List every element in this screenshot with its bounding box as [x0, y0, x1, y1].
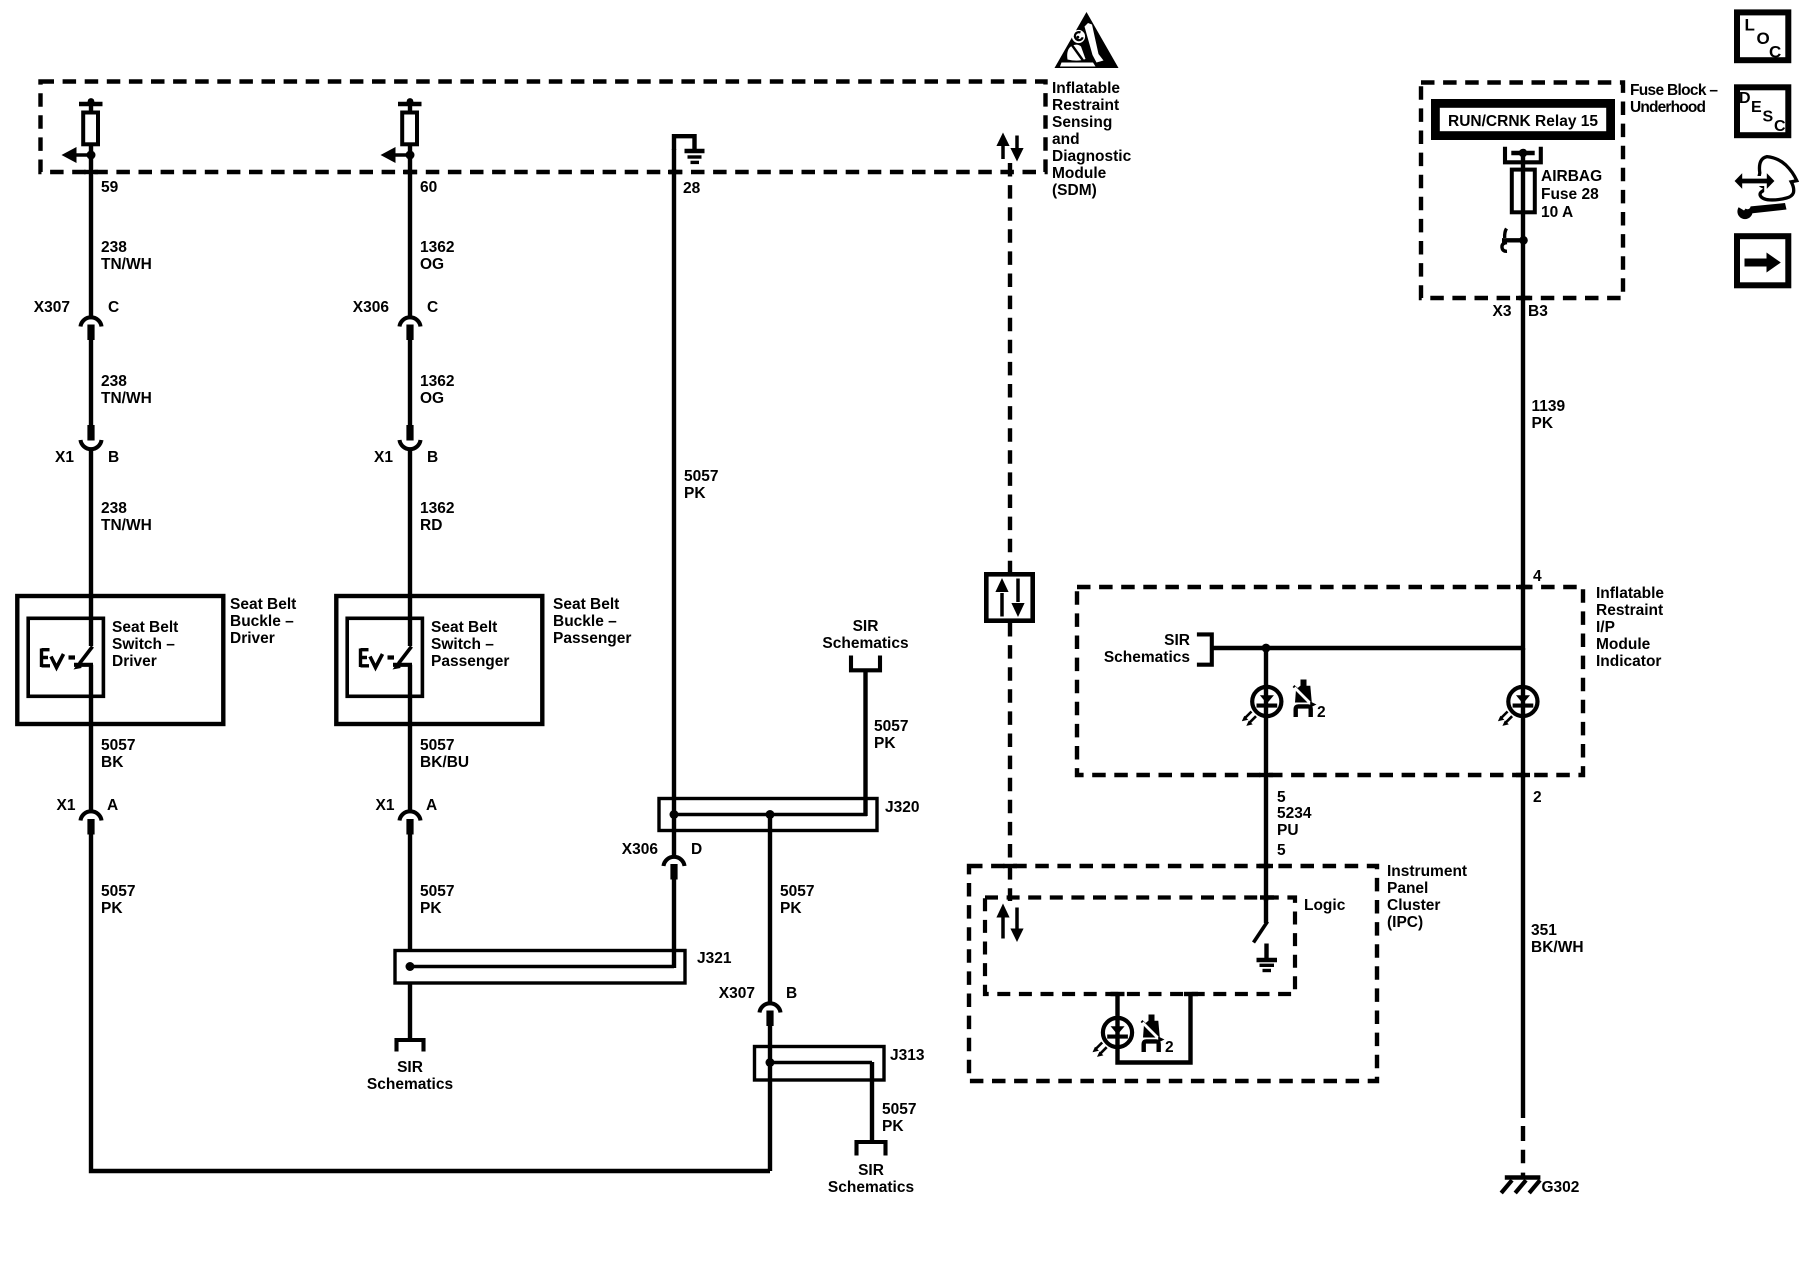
svg-text:B: B — [786, 985, 797, 1002]
svg-text:SIR: SIR — [1164, 632, 1190, 649]
IPC internal ground — [1257, 944, 1278, 971]
IPC label — [1387, 863, 1467, 931]
svg-text:238: 238 — [101, 373, 127, 390]
fuse bottom terminal — [1502, 229, 1528, 252]
indicator module label — [1596, 585, 1664, 670]
svg-text:Panel: Panel — [1387, 880, 1428, 897]
svg-text:5057: 5057 — [684, 468, 718, 485]
svg-text:1139: 1139 — [1532, 398, 1566, 415]
svg-text:C: C — [1769, 43, 1781, 62]
svg-text:28: 28 — [683, 180, 701, 197]
svg-text:5234: 5234 — [1277, 805, 1312, 822]
wire from indicator bracket to lamps — [1212, 644, 1523, 653]
wire 1139 PK — [1521, 298, 1525, 650]
legend LOC box — [1734, 9, 1791, 63]
legend DESC box — [1734, 84, 1791, 138]
fuse block underhood label — [1630, 82, 1718, 116]
splice J320 — [659, 799, 919, 831]
ground G302 — [1501, 1178, 1540, 1194]
svg-text:OG: OG — [420, 390, 444, 407]
svg-text:Module: Module — [1052, 165, 1107, 182]
wire J313 to SIR schematics (bottom) — [870, 1062, 874, 1143]
svg-text:Cluster: Cluster — [1387, 897, 1440, 914]
svg-text:PK: PK — [1532, 415, 1554, 432]
wire label 5057 BK/BU — [420, 737, 469, 771]
svg-text:A: A — [426, 797, 437, 814]
svg-text:X307: X307 — [719, 985, 755, 1002]
wire label 351 BK/WH — [1531, 922, 1584, 956]
data link connector box with arrows — [984, 572, 1035, 623]
logic dashed box — [985, 898, 1295, 995]
wire label 5057 PK (to J320) — [874, 718, 908, 752]
seat belt buckle driver outer box — [17, 596, 223, 724]
svg-text:Diagnostic: Diagnostic — [1052, 148, 1132, 165]
wire label 238 TN/WH (upper) — [101, 239, 152, 273]
svg-text:Inflatable: Inflatable — [1596, 585, 1664, 602]
SDM serial data arrows — [996, 133, 1023, 162]
svg-text:Seat Belt: Seat Belt — [112, 619, 178, 636]
svg-text:1362: 1362 — [420, 500, 454, 517]
connector X1 A passenger — [376, 797, 438, 835]
svg-text:I/P: I/P — [1596, 619, 1615, 636]
svg-text:(IPC): (IPC) — [1387, 914, 1423, 931]
svg-text:Buckle –: Buckle – — [230, 613, 294, 630]
serial data dashed line (SDM to DLC box) — [1008, 163, 1012, 572]
wire label 5057 PK (to X307 B) — [780, 883, 814, 917]
wire label 238 TN/WH (middle) — [101, 373, 152, 407]
svg-text:10 A: 10 A — [1541, 204, 1573, 221]
wire relay to fuse — [1521, 153, 1525, 172]
SIR schematics bracket (below J313) — [857, 1142, 886, 1156]
svg-text:5057: 5057 — [420, 737, 454, 754]
connector X1 B driver — [55, 425, 119, 466]
wire label 5057 PK (ground wire) — [684, 468, 718, 502]
wire 5057 PK driver down and bottom run to X307 B — [91, 835, 770, 1172]
svg-text:D: D — [1739, 90, 1751, 107]
svg-text:B3: B3 — [1528, 303, 1548, 320]
seat belt switch driver inner box — [28, 618, 103, 696]
svg-text:Restraint: Restraint — [1052, 97, 1119, 114]
SIR schematics label (above J320) — [822, 618, 908, 652]
svg-text:2: 2 — [1317, 704, 1326, 721]
SIR schematics label (indicator) — [1104, 632, 1190, 666]
svg-text:J313: J313 — [890, 1047, 925, 1064]
svg-text:Seat Belt: Seat Belt — [230, 596, 296, 613]
svg-text:5057: 5057 — [780, 883, 814, 900]
relay output terminal — [1505, 147, 1541, 163]
svg-text:X3: X3 — [1493, 303, 1512, 320]
svg-text:SIR: SIR — [858, 1162, 884, 1179]
svg-text:1362: 1362 — [420, 373, 454, 390]
wire label 1362 OG (middle) — [420, 373, 454, 407]
svg-text:BK/BU: BK/BU — [420, 754, 469, 771]
wire from SIR bracket to J320 — [863, 670, 867, 816]
svg-text:X306: X306 — [622, 841, 659, 858]
svg-text:X1: X1 — [55, 449, 74, 466]
resistor R-passenger inside SDM — [398, 98, 422, 144]
svg-text:238: 238 — [101, 500, 127, 517]
seat belt buckle passenger label — [553, 596, 631, 647]
wire 5057 BK driver — [89, 724, 93, 810]
IPC seat belt lamp wiring — [1118, 994, 1191, 1063]
serial data dashed line (DLC box to IPC) — [1008, 623, 1012, 901]
seat belt switch driver label — [112, 619, 178, 670]
splice J313 — [755, 1047, 925, 1081]
svg-text:59: 59 — [101, 179, 119, 196]
svg-text:and: and — [1052, 131, 1080, 148]
wire through right indicator lamp — [1521, 648, 1525, 775]
svg-text:5057: 5057 — [101, 737, 135, 754]
wire label 1362 RD — [420, 500, 454, 534]
svg-text:Inflatable: Inflatable — [1052, 80, 1120, 97]
svg-text:PK: PK — [780, 900, 802, 917]
svg-text:1362: 1362 — [420, 239, 454, 256]
wire 238 TN/WH to driver switch — [89, 451, 93, 646]
wire 5234 PU — [1264, 775, 1268, 901]
svg-text:Fuse Block –: Fuse Block – — [1630, 82, 1718, 99]
wire label 5057 BK — [101, 737, 135, 771]
svg-text:PK: PK — [882, 1118, 904, 1135]
svg-text:5057: 5057 — [420, 883, 454, 900]
svg-text:C: C — [427, 299, 438, 316]
wire 1362 OG (X306 C to X1 B) — [408, 340, 412, 425]
svg-text:X1: X1 — [376, 797, 395, 814]
svg-text:BK: BK — [101, 754, 124, 771]
svg-text:Buckle –: Buckle – — [553, 613, 617, 630]
svg-text:X307: X307 — [34, 299, 70, 316]
IPC seat belt LED lamp — [1093, 1018, 1133, 1057]
svg-text:PK: PK — [420, 900, 442, 917]
seat belt pictogram (IPC) — [1142, 1015, 1165, 1053]
pin X3 B3 labels — [1493, 303, 1549, 320]
svg-text:X1: X1 — [57, 797, 76, 814]
svg-text:PK: PK — [874, 735, 896, 752]
fuse AIRBAG Fuse 28 10 A — [1512, 170, 1535, 213]
seat belt switch passenger inner box — [347, 618, 422, 696]
svg-text:4: 4 — [1533, 568, 1542, 585]
wire through left indicator lamp — [1264, 648, 1268, 775]
connector X1 B passenger — [374, 425, 438, 466]
svg-text:Instrument: Instrument — [1387, 863, 1467, 880]
svg-text:Driver: Driver — [112, 653, 157, 670]
svg-text:5: 5 — [1277, 842, 1286, 859]
wire J321 to SIR schematics (passenger) — [408, 983, 412, 1039]
fuse block underhood dashed box — [1421, 83, 1623, 299]
svg-text:PK: PK — [684, 485, 706, 502]
svg-text:Logic: Logic — [1304, 897, 1346, 914]
svg-text:Schematics: Schematics — [1104, 649, 1190, 666]
svg-text:Restraint: Restraint — [1596, 602, 1663, 619]
current arrow at driver resistor — [62, 147, 96, 163]
inflatable restraint IP module indicator dashed box — [1077, 587, 1583, 775]
svg-text:5: 5 — [1277, 789, 1286, 806]
svg-text:PK: PK — [101, 900, 123, 917]
svg-text:Driver: Driver — [230, 630, 275, 647]
wire fuse to bottom terminal — [1521, 212, 1525, 298]
svg-text:2: 2 — [1533, 789, 1542, 806]
resistor R-driver inside SDM — [79, 98, 103, 144]
svg-text:A: A — [107, 797, 118, 814]
wire: SDM pin 60 down to X306 C — [408, 144, 412, 316]
svg-text:Schematics: Schematics — [828, 1179, 914, 1196]
LED indicator lamp (seat belt, left) — [1242, 687, 1282, 726]
svg-text:O: O — [1757, 29, 1770, 48]
seat belt buckle driver label — [230, 596, 296, 647]
fuse label — [1541, 168, 1602, 221]
svg-text:Switch –: Switch – — [112, 636, 175, 653]
wire: SDM pin 59 down to X307 C — [89, 144, 93, 316]
IPC serial data arrows — [996, 904, 1023, 943]
splice J321 — [395, 950, 732, 983]
wire 1362 RD to passenger switch — [408, 451, 412, 646]
svg-text:D: D — [691, 841, 702, 858]
svg-text:OG: OG — [420, 256, 444, 273]
svg-text:B: B — [427, 449, 438, 466]
seat belt switch passenger contact glyph — [361, 647, 413, 725]
svg-text:Indicator: Indicator — [1596, 653, 1661, 670]
svg-text:2: 2 — [1165, 1039, 1174, 1056]
dashed wire to G302 — [1521, 1126, 1525, 1178]
airbag warning triangle icon — [1055, 12, 1119, 68]
svg-text:TN/WH: TN/WH — [101, 256, 152, 273]
svg-text:C: C — [108, 299, 119, 316]
connector X307 B — [719, 985, 797, 1026]
legend forward arrow box — [1734, 233, 1791, 288]
SDM module dashed box — [41, 82, 1046, 173]
wire label 1139 PK — [1532, 398, 1566, 432]
wire X307 B into J313 — [768, 1026, 772, 1064]
svg-text:C: C — [1774, 118, 1786, 135]
SDM label — [1052, 80, 1132, 199]
wire J313 down to bottom run — [768, 1062, 772, 1171]
svg-text:J321: J321 — [697, 950, 732, 967]
wire 5057 BK/BU passenger — [408, 724, 412, 810]
svg-text:TN/WH: TN/WH — [101, 390, 152, 407]
connector X307 C — [34, 299, 119, 340]
wire 5057 PK from pin 28 to J320 — [672, 149, 676, 816]
svg-text:351: 351 — [1531, 922, 1557, 939]
current arrow at passenger resistor — [381, 147, 415, 163]
wire 238 TN/WH (X307 C to X1 B) — [89, 340, 93, 425]
IPC logic switch — [1254, 897, 1268, 943]
seat belt buckle passenger outer box — [336, 596, 542, 724]
svg-text:TN/WH: TN/WH — [101, 517, 152, 534]
seat belt switch passenger label — [431, 619, 509, 670]
svg-text:BK/WH: BK/WH — [1531, 939, 1584, 956]
seat belt switch driver contact glyph — [42, 647, 94, 725]
svg-text:SIR: SIR — [853, 618, 879, 635]
svg-text:Underhood: Underhood — [1630, 99, 1706, 116]
wire J320 to X306 D — [672, 814, 676, 855]
svg-text:5057: 5057 — [101, 883, 135, 900]
svg-text:L: L — [1745, 16, 1755, 35]
svg-text:RUN/CRNK Relay 15: RUN/CRNK Relay 15 — [1448, 113, 1598, 130]
svg-text:SIR: SIR — [397, 1059, 423, 1076]
wire 351 BK/WH — [1521, 775, 1525, 1118]
connector X1 A driver — [57, 797, 119, 835]
svg-text:(SDM): (SDM) — [1052, 182, 1097, 199]
SIR schematics bracket (below J321) — [397, 1040, 424, 1052]
SIR schematics label (below J313) — [828, 1162, 914, 1196]
svg-text:5057: 5057 — [874, 718, 908, 735]
SIR schematics label (below J321) — [367, 1059, 453, 1093]
connector X306 D — [622, 841, 702, 880]
svg-text:G302: G302 — [1542, 1179, 1580, 1196]
wire label 5057 PK passenger — [420, 883, 454, 917]
svg-text:Switch –: Switch – — [431, 636, 494, 653]
svg-text:238: 238 — [101, 239, 127, 256]
wire X306 D to J321 — [672, 880, 676, 969]
wire label 5234 PU and IPC pin 5 — [1277, 805, 1312, 859]
wire J320 to X307 B — [768, 814, 772, 1002]
svg-text:E: E — [1751, 99, 1762, 116]
SDM internal ground at pin 28 — [674, 136, 705, 162]
svg-text:5057: 5057 — [882, 1101, 916, 1118]
wire label 238 TN/WH (lower) — [101, 500, 152, 534]
svg-text:B: B — [108, 449, 119, 466]
svg-text:Module: Module — [1596, 636, 1651, 653]
svg-text:Passenger: Passenger — [431, 653, 509, 670]
svg-text:X1: X1 — [374, 449, 393, 466]
svg-text:X306: X306 — [353, 299, 390, 316]
svg-text:Passenger: Passenger — [553, 630, 631, 647]
svg-text:Seat Belt: Seat Belt — [553, 596, 619, 613]
svg-text:Sensing: Sensing — [1052, 114, 1112, 131]
seat belt pictogram (indicator) — [1294, 680, 1317, 718]
RUN/CRNK Relay 15 box — [1431, 99, 1615, 140]
svg-text:RD: RD — [420, 517, 442, 534]
SIR schematics bracket (indicator) — [1197, 634, 1212, 664]
wire label 5057 PK (J313 branch) — [882, 1101, 916, 1135]
svg-text:S: S — [1763, 109, 1774, 126]
svg-text:J320: J320 — [885, 799, 919, 816]
wire label 5057 PK driver — [101, 883, 135, 917]
wire label 1362 OG (upper) — [420, 239, 454, 273]
legend diagnostic wrench icon — [1733, 157, 1797, 219]
SIR schematics bracket (above J320) — [851, 656, 880, 671]
instrument panel cluster dashed box — [969, 866, 1377, 1081]
svg-text:PU: PU — [1277, 822, 1299, 839]
svg-text:Schematics: Schematics — [367, 1076, 453, 1093]
svg-text:Fuse 28: Fuse 28 — [1541, 186, 1599, 203]
svg-text:60: 60 — [420, 179, 437, 196]
connector X306 C — [353, 299, 438, 340]
svg-text:AIRBAG: AIRBAG — [1541, 168, 1602, 185]
svg-text:Schematics: Schematics — [822, 635, 908, 652]
svg-text:Seat Belt: Seat Belt — [431, 619, 497, 636]
wire 5057 PK passenger to J321 — [408, 835, 412, 953]
LED indicator lamp (right) — [1498, 687, 1538, 726]
